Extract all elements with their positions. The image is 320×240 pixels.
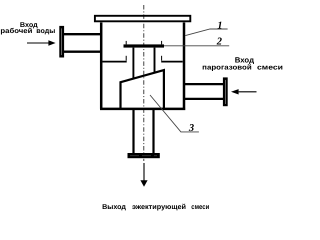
plate tick right above: [161, 41, 163, 45]
svg-text:смеси: смеси: [191, 204, 209, 211]
right flange: [224, 79, 227, 106]
left flange: [60, 27, 63, 56]
bottom outlet arrow: [143, 159, 145, 161]
svg-text:смеси: смеси: [257, 65, 283, 72]
partition line right: [161, 61, 183, 63]
leader line 3: [150, 95, 199, 132]
tick right below plate: [161, 56, 163, 61]
left pipe wall bottom: [64, 51, 101, 53]
left arrow: [27, 42, 50, 44]
right pipe wall bottom: [184, 98, 224, 100]
svg-text:эжектирующей: эжектирующей: [132, 203, 186, 211]
svg-text:1: 1: [217, 21, 222, 32]
svg-text:2: 2: [216, 37, 223, 48]
centerline vertical dash-dot axis: [143, 5, 145, 157]
svg-text:рабочей: рабочей: [0, 27, 32, 35]
right arrow: [239, 91, 257, 93]
right pipe wall top: [184, 83, 224, 85]
svg-text:воды: воды: [36, 28, 55, 35]
nozzle stem right line: [154, 48, 156, 74]
lid top cover plate: [95, 16, 190, 21]
diffuser body item 3: [121, 70, 164, 109]
bottom pipe wall left: [132, 109, 134, 153]
svg-text:Вход: Вход: [235, 55, 254, 64]
partition line left: [102, 61, 126, 63]
leader line 1: [185, 29, 227, 36]
svg-text:Выход: Выход: [102, 204, 126, 211]
plate tick left above: [125, 41, 127, 45]
nozzle plate item 2: [124, 44, 165, 47]
vessel body walls: [100, 23, 185, 109]
svg-text:3: 3: [188, 123, 194, 134]
bottom flange: [128, 153, 160, 158]
tick left below plate: [125, 56, 127, 61]
bottom pipe wall right: [152, 109, 154, 153]
svg-text:парогазовой: парогазовой: [202, 64, 252, 72]
left pipe wall top: [64, 33, 101, 35]
nozzle stem left line: [132, 48, 134, 80]
leader line 2: [164, 45, 229, 47]
